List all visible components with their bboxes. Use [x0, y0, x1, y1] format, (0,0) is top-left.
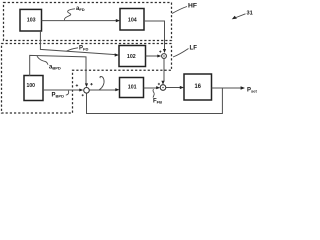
svg-text:101: 101 [128, 85, 138, 91]
arrowhead of reference arrow 31 [232, 16, 237, 20]
svg-text:102: 102 [127, 54, 136, 60]
block 102 [119, 46, 146, 67]
wire P_FD : 103 bottom to 102 [40, 31, 115, 55]
feedback wire from output to junction J1 [87, 88, 223, 114]
wire junction J2 to 16 [166, 87, 181, 89]
center dot of junction J2 [162, 87, 163, 88]
plus sign lower-left of J1 [82, 94, 84, 96]
plus sign upper-left of J1 [76, 84, 78, 86]
block 16 [184, 74, 212, 100]
wire 16 to output P_set [212, 87, 242, 89]
junction J2 (output summing point) [160, 85, 166, 91]
LF group dashed boundary (L-shaped) [2, 44, 172, 114]
wire P_BPD : 100 to junction J1 [43, 89, 81, 91]
arrowhead into J0 from 102 [157, 55, 161, 58]
arrowhead into J2 from left [156, 86, 160, 89]
leader curve for HF label [172, 7, 187, 14]
arrowhead into 101 [115, 88, 119, 91]
block 104 [120, 9, 144, 31]
block 103 [20, 9, 42, 31]
arrowhead into 104 [116, 19, 120, 22]
plus sign upper-right of J1 [90, 83, 92, 85]
center dot of junction J0 [163, 55, 164, 56]
leader squiggle for a_FD [64, 9, 75, 20]
wire junction J0 to junction J2 [163, 59, 165, 82]
arrowhead output P_set [241, 86, 245, 89]
arrowhead into 16 [180, 86, 184, 89]
epsilon leader at junction J1 [99, 76, 104, 89]
leader curve for LF label [173, 49, 189, 58]
leader squiggle for a_BPD [37, 56, 48, 65]
leader J-hook for P_BPD [66, 91, 69, 96]
plus sign upper-left of J2 [158, 83, 160, 85]
wire 102 to junction J0 [146, 55, 158, 57]
plus sign upper-left of J0 [159, 51, 161, 53]
svg-text:103: 103 [27, 17, 37, 23]
svg-text:100: 100 [27, 83, 36, 89]
HF group dashed box [4, 3, 172, 41]
arrowhead into J1 from left [79, 89, 83, 92]
leader squiggle for F_FB [153, 89, 154, 97]
wire 104 to junction J0 [144, 21, 165, 50]
svg-text:PFD: PFD [79, 46, 88, 52]
svg-text:aBPD: aBPD [49, 65, 61, 71]
svg-text:aFD: aFD [76, 6, 85, 12]
arrowhead into J1 from top [85, 83, 88, 87]
leader curve for P_FD [67, 48, 79, 51]
svg-text:HF: HF [188, 3, 197, 10]
wire 103 to 104 [42, 20, 117, 22]
wire junction J1 to 101 [90, 89, 117, 91]
reference arrow 31 [236, 14, 246, 18]
svg-text:FFB: FFB [153, 99, 162, 105]
arrowhead into 102 [115, 53, 119, 56]
block 100 [24, 76, 43, 101]
wire a_BPD : 100 top to junction J1 [30, 55, 86, 84]
svg-text:Pset: Pset [247, 88, 257, 94]
block 101 [120, 78, 144, 98]
svg-text:LF: LF [190, 44, 198, 51]
svg-text:31: 31 [247, 11, 253, 17]
junction J1 (error summing point) [84, 88, 90, 94]
svg-text:PBPD: PBPD [52, 93, 65, 99]
svg-text:104: 104 [128, 17, 138, 23]
arrowhead into J0 from 104 [163, 49, 166, 53]
wire 101 to junction J2 [144, 87, 157, 89]
junction J0 (LF summing point) [162, 54, 167, 59]
svg-text:16: 16 [195, 84, 202, 90]
arrowhead into J2 from top [161, 81, 164, 85]
